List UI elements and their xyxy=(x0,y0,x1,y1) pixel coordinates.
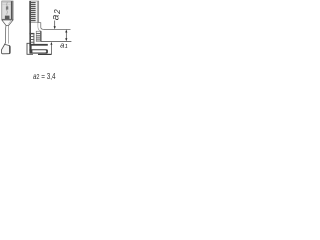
middle view: left dark band lower part xyxy=(29,33,31,44)
bottom section view: bottom bar xyxy=(38,54,52,55)
middle view: wire barrel section block xyxy=(36,31,41,41)
bottom section view: outer-left bracket xyxy=(27,43,33,54)
middle view: barrel inner white strip xyxy=(36,1,37,22)
middle view: left dark edge band xyxy=(29,1,31,33)
background xyxy=(0,0,100,100)
bottom section view: top bar xyxy=(29,44,47,46)
left view: stem-to-crimp left flare xyxy=(3,43,5,48)
left view: interior center dark mark xyxy=(6,6,8,9)
left view: interior bottom dark blob xyxy=(5,16,10,20)
bottom view arrow to L2 xyxy=(50,42,52,45)
bottom section view: slotted middle bar xyxy=(29,49,48,53)
dimension a1 line xyxy=(65,32,67,40)
left view: inner right dark band xyxy=(11,1,13,19)
middle view: insulation block right double edge xyxy=(32,33,34,44)
left view: stem left edge xyxy=(5,25,7,43)
left view: taper funnel xyxy=(2,20,13,25)
middle view: serration bars xyxy=(31,2,36,21)
svg-text:a2 = 3,4: a2 = 3,4 xyxy=(33,71,56,81)
a1 top arrow xyxy=(65,30,67,33)
left view: interior spring zigzag xyxy=(7,2,8,15)
bottom section view: left vertical xyxy=(29,44,31,51)
a1 bottom arrow xyxy=(65,38,67,41)
left view: interior faint lines xyxy=(2,2,10,4)
middle view: wire block right dark double edge xyxy=(39,31,41,41)
middle view: neck outer contour xyxy=(39,23,44,30)
left view: crimp right dark bar xyxy=(9,46,11,54)
left view: inner right taper line xyxy=(8,20,11,25)
left view: insulation crimp xyxy=(1,44,10,53)
extension line L1 xyxy=(43,28,70,30)
middle view: right edge double line xyxy=(37,1,39,23)
middle view: insulation block top dark bar xyxy=(29,33,34,34)
middle view: neck inner contour xyxy=(38,23,41,31)
middle view: wire block stripes xyxy=(36,34,40,40)
dimension a2 line + arrow xyxy=(54,21,56,28)
left view: receptacle box outline xyxy=(2,1,13,19)
svg-text:a2: a2 xyxy=(51,9,63,20)
left view: box bottom edge xyxy=(2,19,13,21)
middle view: insulation block stripes xyxy=(30,37,34,43)
middle view: crimp barrel body xyxy=(30,1,39,23)
left view: stem right edge xyxy=(7,25,9,43)
extension line L2 xyxy=(41,40,72,42)
